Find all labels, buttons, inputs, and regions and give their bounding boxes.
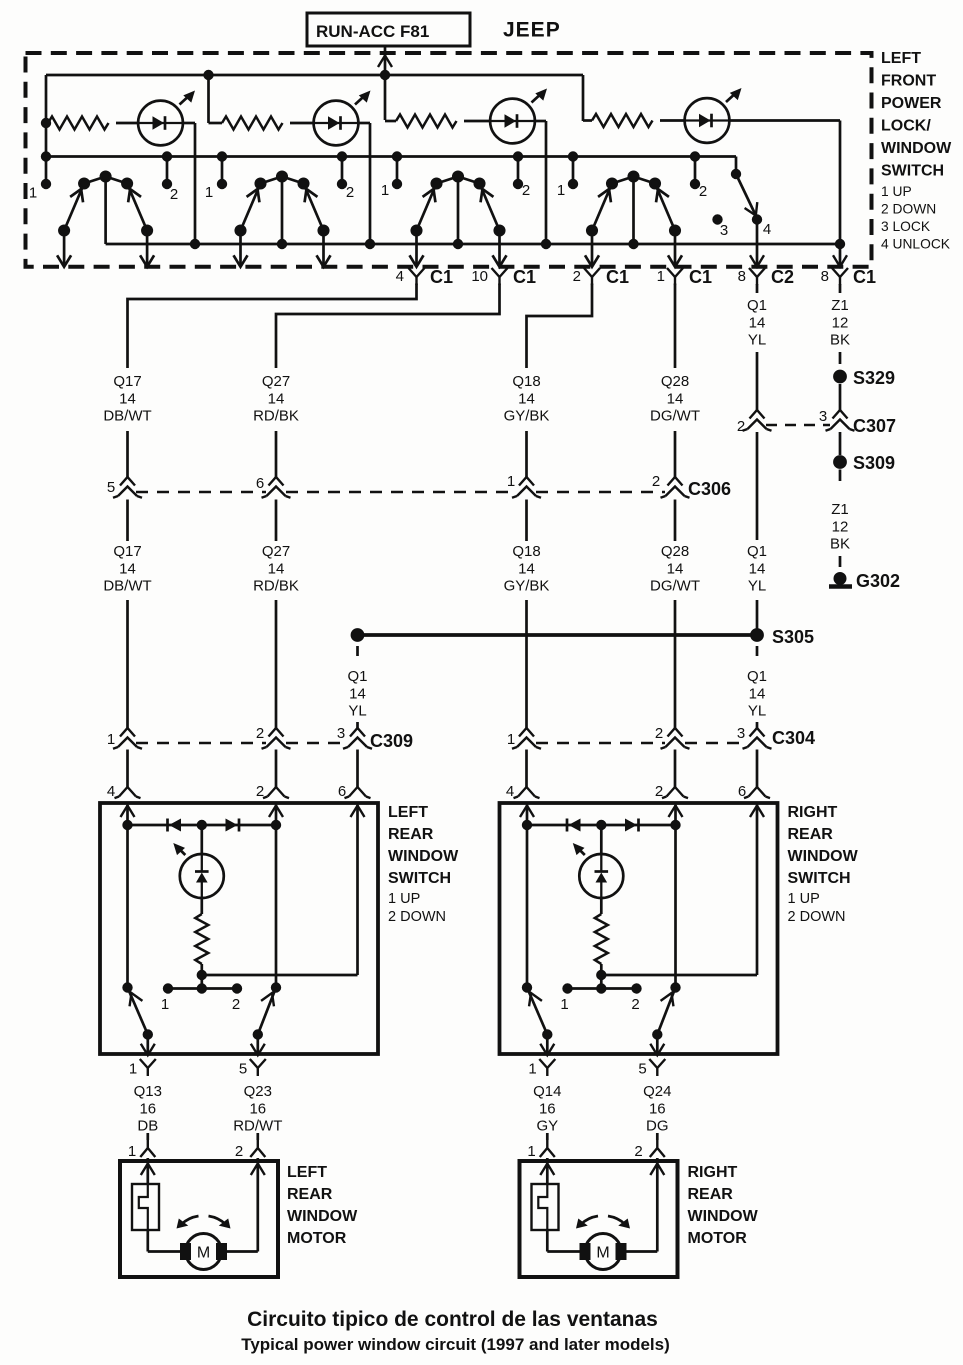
svg-text:RD/WT: RD/WT bbox=[233, 1118, 282, 1135]
svg-text:2: 2 bbox=[256, 783, 264, 800]
svg-text:2: 2 bbox=[522, 182, 530, 199]
svg-text:1: 1 bbox=[528, 1061, 536, 1078]
svg-text:3: 3 bbox=[819, 408, 827, 425]
svg-text:C1: C1 bbox=[606, 267, 629, 287]
svg-text:DG/WT: DG/WT bbox=[650, 578, 700, 595]
svg-text:Q17: Q17 bbox=[113, 373, 141, 390]
svg-text:2: 2 bbox=[652, 473, 660, 490]
svg-text:2: 2 bbox=[631, 996, 639, 1013]
svg-text:DG/WT: DG/WT bbox=[650, 408, 700, 425]
svg-text:14: 14 bbox=[119, 560, 136, 577]
svg-text:GY: GY bbox=[536, 1118, 558, 1135]
svg-text:3: 3 bbox=[337, 725, 345, 742]
svg-text:S305: S305 bbox=[772, 627, 814, 647]
svg-text:RIGHT: RIGHT bbox=[688, 1164, 738, 1181]
svg-text:6: 6 bbox=[338, 783, 346, 800]
svg-text:C2: C2 bbox=[771, 267, 794, 287]
svg-text:5: 5 bbox=[638, 1061, 646, 1078]
svg-text:14: 14 bbox=[518, 390, 535, 407]
svg-text:Q18: Q18 bbox=[512, 373, 540, 390]
svg-text:14: 14 bbox=[749, 685, 766, 702]
svg-text:2: 2 bbox=[699, 183, 707, 200]
svg-text:YL: YL bbox=[348, 703, 366, 720]
svg-text:POWER: POWER bbox=[881, 95, 942, 112]
svg-text:MOTOR: MOTOR bbox=[287, 1230, 347, 1247]
svg-text:1 UP: 1 UP bbox=[881, 184, 912, 199]
svg-text:2: 2 bbox=[232, 996, 240, 1013]
svg-text:REAR: REAR bbox=[688, 1186, 734, 1203]
svg-text:S329: S329 bbox=[853, 368, 895, 388]
svg-text:1: 1 bbox=[507, 473, 515, 490]
svg-text:14: 14 bbox=[349, 685, 366, 702]
svg-text:14: 14 bbox=[667, 390, 684, 407]
svg-text:5: 5 bbox=[107, 479, 115, 496]
svg-text:Q28: Q28 bbox=[661, 543, 689, 560]
svg-text:GY/BK: GY/BK bbox=[504, 408, 550, 425]
svg-text:10: 10 bbox=[471, 268, 488, 285]
svg-text:WINDOW: WINDOW bbox=[788, 848, 859, 865]
svg-text:4: 4 bbox=[506, 783, 514, 800]
svg-text:Z1: Z1 bbox=[831, 501, 849, 518]
svg-text:1: 1 bbox=[129, 1061, 137, 1078]
svg-text:YL: YL bbox=[748, 703, 766, 720]
svg-text:REAR: REAR bbox=[287, 1186, 333, 1203]
svg-text:14: 14 bbox=[749, 314, 766, 331]
svg-text:4: 4 bbox=[763, 221, 771, 238]
svg-text:C306: C306 bbox=[688, 479, 731, 499]
svg-text:C1: C1 bbox=[689, 267, 712, 287]
svg-text:1: 1 bbox=[381, 182, 389, 199]
svg-text:1: 1 bbox=[657, 268, 665, 285]
svg-text:Q13: Q13 bbox=[134, 1083, 162, 1100]
svg-text:DG: DG bbox=[646, 1118, 669, 1135]
svg-text:G302: G302 bbox=[856, 571, 900, 591]
svg-text:1: 1 bbox=[560, 996, 568, 1013]
svg-text:14: 14 bbox=[667, 560, 684, 577]
svg-text:2 DOWN: 2 DOWN bbox=[788, 909, 846, 925]
svg-text:2: 2 bbox=[655, 725, 663, 742]
svg-text:C1: C1 bbox=[513, 267, 536, 287]
svg-text:SWITCH: SWITCH bbox=[388, 870, 451, 887]
svg-text:3 LOCK: 3 LOCK bbox=[881, 219, 931, 234]
svg-text:REAR: REAR bbox=[388, 826, 434, 843]
svg-text:4: 4 bbox=[396, 268, 404, 285]
svg-text:2: 2 bbox=[346, 184, 354, 201]
svg-text:2: 2 bbox=[655, 783, 663, 800]
svg-text:14: 14 bbox=[268, 390, 285, 407]
svg-text:C1: C1 bbox=[430, 267, 453, 287]
svg-text:14: 14 bbox=[749, 560, 766, 577]
svg-text:C309: C309 bbox=[370, 731, 413, 751]
svg-text:Q1: Q1 bbox=[747, 543, 767, 560]
svg-text:2: 2 bbox=[235, 1143, 243, 1160]
svg-text:3: 3 bbox=[720, 222, 728, 239]
svg-text:3: 3 bbox=[737, 725, 745, 742]
svg-text:4 UNLOCK: 4 UNLOCK bbox=[881, 237, 951, 252]
svg-text:DB/WT: DB/WT bbox=[103, 408, 151, 425]
svg-text:RD/BK: RD/BK bbox=[253, 408, 299, 425]
svg-text:WINDOW: WINDOW bbox=[388, 848, 459, 865]
svg-text:6: 6 bbox=[738, 783, 746, 800]
svg-text:LOCK/: LOCK/ bbox=[881, 118, 931, 135]
svg-text:14: 14 bbox=[518, 560, 535, 577]
svg-text:16: 16 bbox=[139, 1100, 156, 1117]
svg-text:BK: BK bbox=[830, 332, 850, 349]
svg-text:YL: YL bbox=[748, 332, 766, 349]
svg-text:2: 2 bbox=[170, 186, 178, 203]
svg-text:FRONT: FRONT bbox=[881, 73, 936, 90]
svg-text:16: 16 bbox=[649, 1100, 666, 1117]
svg-text:M: M bbox=[596, 1245, 609, 1262]
svg-text:14: 14 bbox=[268, 560, 285, 577]
svg-text:SWITCH: SWITCH bbox=[788, 870, 851, 887]
svg-text:1: 1 bbox=[557, 182, 565, 199]
svg-text:RIGHT: RIGHT bbox=[788, 804, 838, 821]
svg-text:16: 16 bbox=[249, 1100, 266, 1117]
svg-text:Q24: Q24 bbox=[643, 1083, 671, 1100]
svg-text:REAR: REAR bbox=[788, 826, 834, 843]
svg-text:5: 5 bbox=[239, 1061, 247, 1078]
svg-text:YL: YL bbox=[748, 578, 766, 595]
svg-text:4: 4 bbox=[107, 783, 115, 800]
svg-text:1: 1 bbox=[29, 185, 37, 202]
svg-text:S309: S309 bbox=[853, 453, 895, 473]
svg-text:1 UP: 1 UP bbox=[388, 891, 420, 907]
svg-text:12: 12 bbox=[832, 314, 849, 331]
svg-text:14: 14 bbox=[119, 390, 136, 407]
svg-text:JEEP: JEEP bbox=[503, 19, 561, 42]
svg-text:16: 16 bbox=[539, 1100, 556, 1117]
svg-text:Z1: Z1 bbox=[831, 297, 849, 314]
svg-text:WINDOW: WINDOW bbox=[881, 140, 952, 157]
svg-text:12: 12 bbox=[832, 518, 849, 535]
svg-text:8: 8 bbox=[821, 268, 829, 285]
svg-text:SWITCH: SWITCH bbox=[881, 163, 944, 180]
svg-text:MOTOR: MOTOR bbox=[688, 1230, 748, 1247]
svg-text:Q27: Q27 bbox=[262, 373, 290, 390]
svg-text:Q27: Q27 bbox=[262, 543, 290, 560]
svg-text:Q28: Q28 bbox=[661, 373, 689, 390]
svg-text:2: 2 bbox=[573, 268, 581, 285]
svg-text:LEFT: LEFT bbox=[881, 50, 921, 67]
svg-text:1: 1 bbox=[527, 1143, 535, 1160]
svg-text:2: 2 bbox=[634, 1143, 642, 1160]
svg-text:2: 2 bbox=[737, 418, 745, 435]
svg-text:M: M bbox=[197, 1245, 210, 1262]
svg-text:Q23: Q23 bbox=[244, 1083, 272, 1100]
svg-text:C304: C304 bbox=[772, 728, 815, 748]
svg-text:GY/BK: GY/BK bbox=[504, 578, 550, 595]
svg-text:1: 1 bbox=[107, 731, 115, 748]
svg-text:1: 1 bbox=[205, 184, 213, 201]
svg-text:2 DOWN: 2 DOWN bbox=[388, 909, 446, 925]
svg-text:1 UP: 1 UP bbox=[788, 891, 820, 907]
svg-text:Q17: Q17 bbox=[113, 543, 141, 560]
svg-text:2: 2 bbox=[256, 725, 264, 742]
svg-text:LEFT: LEFT bbox=[287, 1164, 327, 1181]
svg-text:1: 1 bbox=[128, 1143, 136, 1160]
svg-text:1: 1 bbox=[161, 996, 169, 1013]
svg-text:8: 8 bbox=[738, 268, 746, 285]
svg-text:1: 1 bbox=[507, 731, 515, 748]
svg-text:DB: DB bbox=[137, 1118, 158, 1135]
svg-text:Circuito tipico de control de: Circuito tipico de control de las ventan… bbox=[247, 1308, 658, 1331]
svg-text:Q1: Q1 bbox=[747, 297, 767, 314]
svg-text:LEFT: LEFT bbox=[388, 804, 428, 821]
svg-text:Q14: Q14 bbox=[533, 1083, 561, 1100]
svg-text:DB/WT: DB/WT bbox=[103, 578, 151, 595]
svg-text:WINDOW: WINDOW bbox=[688, 1208, 759, 1225]
svg-text:Q1: Q1 bbox=[747, 668, 767, 685]
svg-text:Q18: Q18 bbox=[512, 543, 540, 560]
svg-text:C1: C1 bbox=[853, 267, 876, 287]
svg-text:BK: BK bbox=[830, 536, 850, 553]
svg-text:Typical power window circuit (: Typical power window circuit (1997 and l… bbox=[241, 1335, 670, 1354]
svg-text:WINDOW: WINDOW bbox=[287, 1208, 358, 1225]
svg-text:RD/BK: RD/BK bbox=[253, 578, 299, 595]
svg-text:Q1: Q1 bbox=[347, 668, 367, 685]
svg-text:2 DOWN: 2 DOWN bbox=[881, 202, 936, 217]
svg-text:6: 6 bbox=[256, 475, 264, 492]
svg-text:RUN-ACC F81: RUN-ACC F81 bbox=[316, 22, 429, 41]
svg-text:C307: C307 bbox=[853, 416, 896, 436]
